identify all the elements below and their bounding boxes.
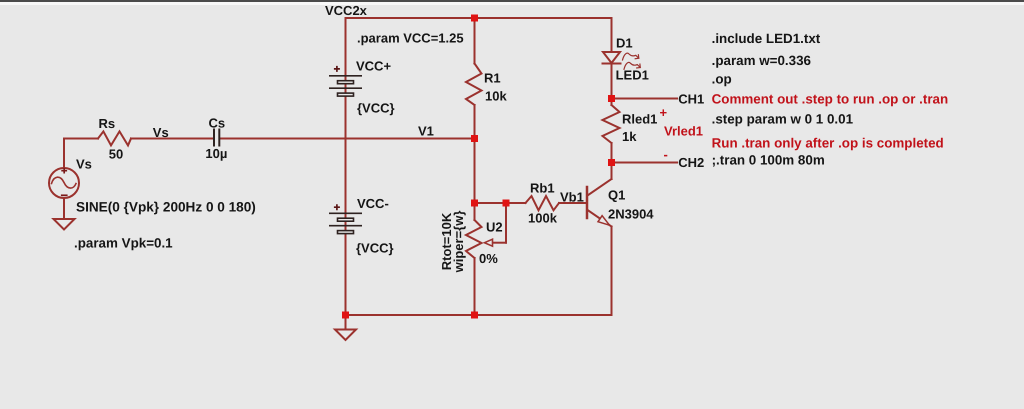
svg-text:LED1: LED1 bbox=[616, 68, 649, 83]
svg-text:.step param w 0 1 0.01: .step param w 0 1 0.01 bbox=[712, 112, 854, 127]
svg-text:V1: V1 bbox=[418, 123, 434, 138]
svg-text:0%: 0% bbox=[479, 251, 498, 266]
svg-text:.op: .op bbox=[712, 72, 732, 87]
svg-text:Rs: Rs bbox=[99, 116, 116, 131]
svg-text:-: - bbox=[664, 147, 668, 162]
svg-text:Vs: Vs bbox=[153, 125, 169, 140]
svg-text:Vb1: Vb1 bbox=[560, 190, 584, 205]
svg-text:10k: 10k bbox=[485, 89, 507, 104]
svg-text:CH1: CH1 bbox=[678, 91, 704, 106]
svg-text:{VCC}: {VCC} bbox=[356, 241, 394, 256]
svg-text:Vs: Vs bbox=[76, 157, 92, 172]
svg-text:D1: D1 bbox=[616, 36, 633, 51]
svg-text:Run .tran only after .op is co: Run .tran only after .op is completed bbox=[712, 135, 944, 150]
svg-text:Rb1: Rb1 bbox=[530, 181, 555, 196]
svg-text:10µ: 10µ bbox=[205, 146, 227, 161]
svg-text:R1: R1 bbox=[484, 71, 501, 86]
svg-text:2N3904: 2N3904 bbox=[608, 207, 654, 222]
svg-text:VCC2x: VCC2x bbox=[325, 3, 368, 18]
svg-text:100k: 100k bbox=[528, 211, 558, 226]
svg-text:.param w=0.336: .param w=0.336 bbox=[712, 53, 811, 68]
svg-text:.param Vpk=0.1: .param Vpk=0.1 bbox=[74, 236, 173, 251]
svg-text:;.tran 0 100m 80m: ;.tran 0 100m 80m bbox=[712, 153, 825, 168]
svg-text:50: 50 bbox=[109, 147, 123, 162]
svg-text:{VCC}: {VCC} bbox=[357, 101, 395, 116]
svg-text:Cs: Cs bbox=[209, 116, 226, 131]
svg-text:VCC-: VCC- bbox=[357, 196, 389, 211]
svg-text:.include LED1.txt: .include LED1.txt bbox=[712, 31, 821, 46]
svg-text:Comment out .step to run .op o: Comment out .step to run .op or .tran bbox=[712, 92, 949, 107]
svg-text:SINE(0 {Vpk} 200Hz 0 0 180): SINE(0 {Vpk} 200Hz 0 0 180) bbox=[76, 200, 256, 215]
svg-text:U2: U2 bbox=[486, 220, 503, 235]
svg-text:+: + bbox=[660, 105, 668, 120]
svg-text:.param VCC=1.25: .param VCC=1.25 bbox=[357, 31, 464, 46]
svg-text:Q1: Q1 bbox=[608, 188, 625, 203]
svg-text:VCC+: VCC+ bbox=[356, 59, 391, 74]
svg-text:Vrled1: Vrled1 bbox=[664, 124, 703, 139]
svg-text:1k: 1k bbox=[622, 129, 637, 144]
svg-text:wiper={w}: wiper={w} bbox=[451, 211, 466, 274]
svg-text:CH2: CH2 bbox=[678, 155, 704, 170]
svg-text:Rled1: Rled1 bbox=[622, 112, 657, 127]
